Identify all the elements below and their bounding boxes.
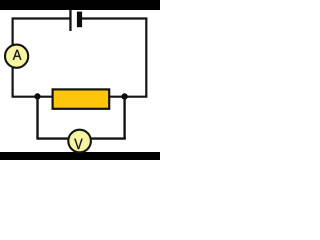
junction node left [34,93,40,99]
wire middle left segment [12,96,54,98]
battery long plate [69,10,71,31]
wire voltmeter branch bottom right horizontal [91,137,126,139]
wire left vertical lower [12,67,14,96]
ammeter label A [13,50,22,60]
resistor R1 [53,89,110,108]
battery short thick plate [77,12,82,28]
wire left vertical upper [12,18,14,46]
junction node right [121,93,127,99]
top letterbox bar [0,0,160,10]
wire voltmeter branch right vertical [123,97,125,139]
wire top-right segment [81,17,147,19]
voltmeter label V [74,139,82,149]
ammeter A1 circle [5,45,28,68]
bottom letterbox bar [0,152,160,160]
voltmeter V1 circle [68,130,91,153]
wire voltmeter branch bottom left horizontal [36,137,68,139]
wire voltmeter branch left vertical [36,96,38,138]
wire top-left segment [12,17,71,19]
wire middle right segment [109,96,147,98]
wire right vertical [145,18,147,98]
